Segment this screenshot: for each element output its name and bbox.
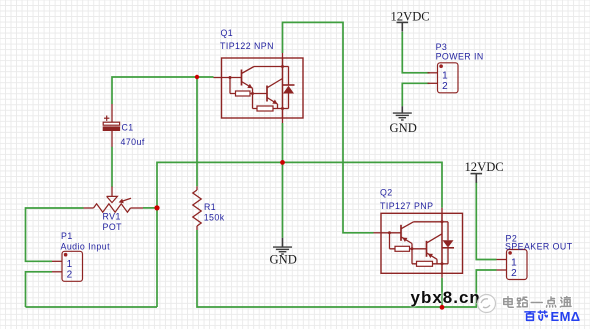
svg-text:Q1: Q1 bbox=[221, 28, 234, 38]
svg-text:R1: R1 bbox=[204, 202, 216, 212]
svg-text:SPEAKER OUT: SPEAKER OUT bbox=[505, 241, 573, 251]
svg-text:TIP127 PNP: TIP127 PNP bbox=[380, 201, 433, 211]
svg-text:12VDC: 12VDC bbox=[465, 160, 504, 174]
svg-text:2: 2 bbox=[442, 81, 448, 92]
svg-text:1: 1 bbox=[67, 259, 73, 270]
svg-text:Audio Input: Audio Input bbox=[61, 242, 111, 252]
svg-text:470uf: 470uf bbox=[121, 137, 145, 147]
svg-text:1: 1 bbox=[511, 257, 517, 268]
svg-text:C1: C1 bbox=[122, 123, 134, 133]
svg-text:TIP122 NPN: TIP122 NPN bbox=[220, 41, 274, 51]
svg-text:12VDC: 12VDC bbox=[391, 10, 430, 24]
svg-text:POT: POT bbox=[103, 222, 123, 232]
svg-text:GND: GND bbox=[270, 253, 297, 267]
svg-text:POWER IN: POWER IN bbox=[436, 51, 484, 61]
svg-text:2: 2 bbox=[511, 268, 517, 279]
svg-text:RV1: RV1 bbox=[103, 212, 121, 222]
svg-text:EMΔ: EMΔ bbox=[551, 309, 581, 324]
svg-text:150k: 150k bbox=[204, 213, 225, 223]
svg-text:Q2: Q2 bbox=[380, 188, 393, 198]
svg-text:1: 1 bbox=[442, 71, 448, 82]
svg-text:P1: P1 bbox=[61, 231, 73, 241]
svg-text:2: 2 bbox=[67, 270, 73, 281]
svg-text:GND: GND bbox=[390, 121, 417, 135]
